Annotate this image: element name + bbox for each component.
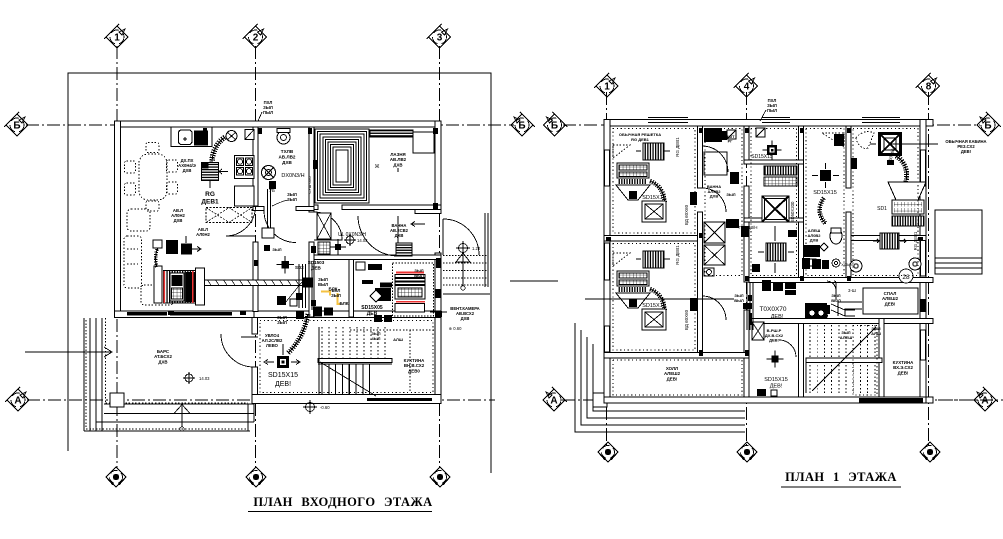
- svg-text:ДЕВ!: ДЕВ!: [961, 149, 971, 154]
- partition shower bottom: [744, 218, 804, 222]
- axis marker 1 top right plan: [594, 73, 618, 97]
- svg-text:ДЕВ!: ДЕВ!: [770, 383, 783, 389]
- svg-text:А: А: [14, 396, 21, 407]
- exterior wall top (left plan): [115, 121, 442, 127]
- stair handrail: [318, 359, 392, 363]
- balcony right: [935, 210, 982, 274]
- label sauna: [390, 152, 407, 167]
- labels left stair hall: [262, 333, 283, 348]
- duct hatch marks: [208, 281, 299, 286]
- svg-text:ДХВ: ДХВ: [174, 218, 183, 223]
- terrace column at axis: [110, 393, 124, 407]
- partition col3 right: [799, 126, 804, 282]
- axis marker 2 top: [243, 24, 267, 48]
- labels corridor: [765, 328, 784, 343]
- vent unit bedroom SW: [616, 251, 670, 330]
- svg-text:3-Ш: 3-Ш: [848, 288, 856, 293]
- axis line 3 vertical: [439, 46, 441, 468]
- svg-text:4ЫЛ: 4ЫЛ: [372, 336, 381, 341]
- label terrace room: [154, 349, 172, 364]
- (28) circle: [899, 269, 913, 283]
- svg-text:ДХВ: ДХВ: [810, 238, 819, 243]
- partition axis4 mid: [744, 186, 749, 282]
- RG unit kitchen: [202, 163, 219, 181]
- bath mat: [396, 243, 412, 256]
- partition stair left: [799, 320, 804, 397]
- axis marker 1 bottom right plan: [598, 442, 618, 462]
- svg-text:АЛШ: АЛШ: [871, 331, 881, 336]
- svg-text:SD15X15: SD15X15: [751, 154, 773, 160]
- svg-text:АВ.ЛВ2: АВ.ЛВ2: [278, 154, 295, 159]
- svg-text:ДЕВ!: ДЕВ!: [667, 376, 678, 381]
- axis marker 1 bottom: [106, 467, 126, 487]
- svg-text:ВЫТ: ВЫТ: [726, 135, 735, 139]
- stair hall door arc to terrace: [221, 334, 254, 367]
- dotted wedge right col: [822, 133, 844, 147]
- label SD15X15 stair hall: [268, 372, 298, 379]
- svg-text:SD15X15: SD15X15: [813, 190, 837, 196]
- svg-text:ПЛАН 1 ЭТАЖА: ПЛАН 1 ЭТАЖА: [785, 470, 897, 484]
- svg-text:ДЕВ!: ДЕВ!: [769, 338, 779, 343]
- window band bottom wall: [127, 312, 232, 315]
- corridor diffuser: [767, 351, 784, 368]
- svg-text:SD1503: SD1503: [308, 260, 325, 265]
- svg-text:4: 4: [744, 82, 750, 93]
- grille NE room: [873, 233, 906, 249]
- partition hall/sauna lower: [309, 242, 314, 317]
- WC toilet: [277, 131, 290, 144]
- axis line 1 vertical right plan: [606, 92, 608, 445]
- svg-text:А: А: [981, 396, 988, 407]
- window sills top wall: [648, 117, 688, 119]
- wall junction specks right plan: [699, 128, 703, 133]
- door arcs bedrooms left: [703, 188, 727, 212]
- armchair: [127, 209, 150, 231]
- svg-text:ДХВ: ДХВ: [395, 233, 404, 238]
- svg-text:SD15X15: SD15X15: [642, 195, 666, 201]
- label bath: [390, 223, 409, 238]
- svg-text:ДЕВ!: ДЕВ!: [898, 370, 909, 375]
- wall corner SE: [926, 397, 933, 403]
- s-duct NE room: [896, 156, 907, 182]
- partition hall top: [604, 353, 749, 359]
- axis marker Б left: [4, 112, 28, 136]
- svg-text:1: 1: [114, 33, 120, 44]
- big X diffuser mid: [762, 196, 789, 222]
- svg-text:-0.60: -0.60: [320, 405, 330, 410]
- black unit with circles: [805, 303, 827, 319]
- labels right col: [807, 228, 821, 243]
- partition bath bottom: [314, 255, 441, 260]
- tech room AHU hatched: [396, 272, 424, 274]
- svg-text:14.03: 14.03: [357, 238, 368, 243]
- svg-text:БЛК: БЛК: [339, 301, 348, 306]
- svg-text:Б: Б: [13, 121, 20, 132]
- axis line 8 vertical right plan: [928, 92, 930, 445]
- stair upper flight dotted: [322, 327, 385, 360]
- svg-text:ТХЛВ: ТХЛВ: [281, 149, 294, 154]
- riser black boxes axis4: [741, 226, 749, 237]
- axis marker 2 bottom: [246, 467, 266, 487]
- kitchen lower counter: [235, 186, 255, 206]
- dense black cluster above: [802, 258, 810, 269]
- stove: [235, 156, 255, 179]
- dining table: [139, 154, 167, 200]
- axis marker А left: [5, 387, 29, 411]
- dotted room insets: [613, 129, 695, 234]
- partition hall/sauna upper: [309, 127, 314, 212]
- svg-text:ЗЫЛ: ЗЫЛ: [272, 247, 281, 252]
- axis marker 4 top right plan: [734, 73, 758, 97]
- horizontal supply duct: [205, 280, 306, 286]
- exterior wall bottom (right plan): [604, 397, 933, 403]
- hall closet X: [206, 208, 252, 223]
- svg-text:ДХВ: ДХВ: [183, 168, 192, 173]
- labels hall lower: [277, 315, 287, 325]
- label SD corridor: [764, 377, 788, 389]
- label kuhtina: [404, 358, 425, 373]
- porch edge: [485, 213, 488, 287]
- label kuhtina right plan: [893, 360, 914, 375]
- svg-text:SD1: SD1: [877, 206, 887, 212]
- terrace section arrow: [174, 405, 190, 414]
- leader + label obychnaya kabina: [890, 143, 938, 145]
- stairs right plan dotted treads: [810, 325, 875, 393]
- fan-coil cluster living room: [154, 266, 162, 303]
- partition shower top: [744, 160, 804, 164]
- partition tech room left: [349, 260, 354, 318]
- svg-text:ВД 60X60: ВД 60X60: [684, 204, 689, 225]
- axis line 1 vertical: [116, 46, 118, 468]
- axis marker 3 top: [427, 24, 451, 48]
- axis marker Б left (right plan): [544, 112, 568, 136]
- stair cut diagonal right plan: [812, 327, 876, 391]
- svg-text:ДЕВ!: ДЕВ!: [275, 381, 291, 388]
- site boundary left plan: [68, 73, 491, 473]
- hall duct bottom cluster: [313, 307, 322, 317]
- exterior wall left (right plan): [604, 120, 610, 404]
- big black X diffuser NE: [878, 132, 902, 156]
- corridor riser pipes: [747, 282, 753, 330]
- svg-text:ПЫЛ: ПЫЛ: [263, 110, 273, 115]
- bathroom trays col2: [704, 152, 727, 175]
- duct elbow: [838, 302, 862, 316]
- axis line Б right plan: [601, 124, 980, 126]
- exterior wall right upper (left plan): [435, 121, 441, 213]
- stair hall bottom wall: [252, 395, 441, 404]
- dotted wedge far right room: [856, 132, 874, 149]
- svg-text:Т0Х0Х70: Т0Х0Х70: [759, 306, 786, 313]
- svg-text:ДЕВ1: ДЕВ1: [201, 198, 219, 205]
- riser labels above right plan: [767, 98, 777, 113]
- stair walk line: [409, 330, 411, 392]
- svg-text:1.20: 1.20: [472, 246, 481, 251]
- terrace leader arrow: [25, 347, 112, 357]
- labels left of tech: [331, 288, 341, 298]
- hall small boxes: [277, 296, 286, 305]
- hall vertical duct band: [299, 264, 312, 310]
- svg-text:ДХВ: ДХВ: [710, 194, 719, 199]
- axis marker 4 bottom right plan: [737, 442, 757, 462]
- label SD tech: [361, 305, 383, 317]
- svg-text:ВЫЛ: ВЫЛ: [318, 282, 328, 287]
- kitchen black appliance: [194, 131, 208, 146]
- svg-text:ЗЫЛ: ЗЫЛ: [331, 293, 341, 298]
- svg-text:ДЕВ0: ДЕВ0: [408, 368, 420, 373]
- svg-text:Б: Б: [518, 121, 525, 132]
- partition WC bottom west stub: [253, 207, 264, 211]
- terrace steps bottom: [84, 414, 254, 432]
- svg-text:А: А: [550, 396, 557, 407]
- exterior wall bottom-mid segment: [254, 311, 441, 318]
- svg-text:1: 1: [604, 82, 610, 93]
- svg-text:АЛШ: АЛШ: [393, 337, 403, 342]
- axis marker А right (right plan): [974, 387, 998, 411]
- axis marker Б right (left plan): [511, 112, 535, 136]
- svg-text:Б: Б: [984, 121, 991, 132]
- svg-text:Б: Б: [551, 121, 558, 132]
- label hall room: [664, 366, 681, 381]
- partition living/hall lower: [253, 242, 258, 312]
- porch door arc: [443, 219, 479, 255]
- svg-text:SD15X15: SD15X15: [268, 372, 298, 379]
- partition col4 right upper: [846, 126, 851, 188]
- porch survey mark: [459, 244, 468, 253]
- axis marker 3 bottom: [430, 467, 450, 487]
- svg-text:28: 28: [902, 274, 910, 281]
- svg-text:ДХВ: ДХВ: [158, 359, 167, 364]
- label top left room: [619, 132, 661, 142]
- black box with 3: [181, 244, 192, 255]
- porch steps: [443, 256, 487, 286]
- corridor black squares: [809, 305, 818, 314]
- diffuser right col: [820, 170, 831, 181]
- svg-text:ДЕВ!: ДЕВ!: [771, 314, 784, 320]
- exterior wall left (left plan): [115, 121, 121, 317]
- tech room black wall boxes: [374, 315, 382, 322]
- sofa: [124, 236, 142, 288]
- partition axis4 lower: [744, 310, 749, 397]
- mid column AHU grille: [764, 166, 797, 175]
- stair cut line: [320, 362, 376, 396]
- svg-text:3: 3: [437, 33, 443, 44]
- black diffuser top mid-left: [718, 131, 727, 140]
- partition mid horizontal: [749, 278, 933, 283]
- axis line 2 vertical: [255, 46, 257, 468]
- tech room fan unit black: [375, 288, 391, 301]
- partition stair hall top: [749, 319, 933, 324]
- svg-text:ДХВ: ДХВ: [393, 162, 402, 167]
- svg-text:RG: RG: [205, 191, 215, 198]
- partition stair right: [879, 319, 884, 398]
- axis line Б right plan west stub: [563, 124, 600, 126]
- svg-text:ПЫЛ: ПЫЛ: [767, 108, 777, 113]
- svg-text:⊕ 0.60: ⊕ 0.60: [449, 326, 462, 331]
- funnel NE: [888, 182, 926, 200]
- label RG ДЕВ1 kitchen: [201, 191, 219, 205]
- axis marker А left (right plan): [543, 387, 567, 411]
- exterior wall right lower (left plan): [435, 253, 441, 400]
- axis marker 8 bottom right plan: [920, 442, 940, 462]
- svg-text:ВД 60X60: ВД 60X60: [684, 309, 689, 330]
- riser labels above building: [263, 100, 273, 115]
- svg-text:RG ДЕВ1: RG ДЕВ1: [913, 231, 918, 250]
- svg-text:SD2: SD2: [295, 265, 304, 270]
- hall diffuser: [276, 256, 294, 274]
- exterior wall bottom-left segment: [115, 311, 255, 318]
- corridor black equipment row: [762, 280, 771, 291]
- stair labels small: [831, 293, 841, 303]
- label block WC: [278, 149, 295, 165]
- sauna heater: [370, 130, 413, 137]
- label block kitchen: [178, 158, 196, 173]
- svg-text:SD15X15: SD15X15: [642, 303, 666, 309]
- terrace steps left side: [84, 318, 102, 431]
- svg-text:2: 2: [253, 33, 259, 44]
- AHU NE: [892, 200, 924, 214]
- window band bottom right plan: [859, 398, 923, 403]
- s-duct right col: [820, 198, 826, 224]
- svg-text:ДЕВ!: ДЕВ!: [885, 301, 896, 306]
- wall corner NE: [926, 120, 933, 127]
- windows left wall: [605, 150, 610, 186]
- kitchen counter top: [171, 127, 212, 147]
- diffuser mid top: [763, 141, 782, 160]
- mid striped grille low: [766, 243, 786, 261]
- svg-text:ВЫЛ: ВЫЛ: [734, 298, 744, 303]
- bath big door arc: [358, 216, 398, 256]
- partition right mid: [851, 236, 926, 241]
- partition bedrooms left: [604, 236, 698, 242]
- porch arrow: [456, 253, 470, 262]
- svg-text:ЗЫЛ: ЗЫЛ: [726, 192, 735, 197]
- exhaust fan symbol: [262, 166, 276, 180]
- label kabina right margin: [945, 139, 986, 154]
- kitchen sink: [179, 130, 193, 145]
- label spal room: [882, 291, 899, 306]
- svg-text:14.03: 14.03: [199, 376, 210, 381]
- axis marker Б right (right plan): [977, 112, 1001, 136]
- label SD1503: [308, 260, 325, 270]
- labels col2: [707, 184, 721, 199]
- svg-text:УБ: УБ: [269, 188, 275, 193]
- window band stair hall bottom: [367, 398, 432, 401]
- dotted wedge NW: [613, 145, 630, 158]
- small labels hall: [287, 192, 297, 202]
- duct elbow right: [827, 281, 836, 300]
- axis marker 1 top: [104, 24, 128, 48]
- partition sauna bottom stub: [314, 205, 318, 210]
- svg-text:ЗЫЛ: ЗЫЛ: [287, 197, 297, 202]
- axis line Б horizontal: [26, 124, 514, 126]
- partition WC bottom east stub: [296, 207, 314, 211]
- svg-text:ДХВ: ДХВ: [461, 316, 470, 321]
- partition sauna bottom: [342, 205, 441, 210]
- terrace steps right plan: [575, 323, 745, 432]
- label vent kamera: [450, 306, 479, 321]
- svg-text:RG ДЕВ1: RG ДЕВ1: [675, 137, 680, 157]
- kitchen fan: [226, 131, 237, 142]
- dotted inset stair hall left plan: [260, 321, 433, 393]
- axis line А horizontal: [27, 399, 495, 401]
- svg-text:ДХВ: ДХВ: [282, 160, 292, 165]
- svg-text:АЛ0Н2: АЛ0Н2: [196, 232, 210, 237]
- stair black square diffuser: [277, 356, 289, 368]
- svg-text:RG ДЕВ1: RG ДЕВ1: [675, 245, 680, 265]
- WC door arc: [264, 211, 296, 243]
- svg-text:DX0N3/Н: DX0N3/Н: [281, 173, 304, 179]
- sauna corner box: [413, 132, 434, 153]
- partition kitchen/hall: [253, 127, 258, 206]
- axis line А right plan: [562, 399, 978, 401]
- partition col4 right lower: [846, 212, 851, 282]
- hall door arc (kitchen): [226, 206, 256, 236]
- leader line right: [443, 293, 490, 295]
- terrace floor edge: [104, 404, 254, 431]
- terrace dotted boundary: [106, 318, 249, 403]
- exterior wall right (right plan): [920, 120, 926, 404]
- svg-text:АЛЕШ: АЛЕШ: [840, 335, 852, 340]
- svg-text:ВЫЛ: ВЫЛ: [414, 273, 424, 278]
- hall misc boxes: [262, 228, 274, 238]
- svg-text:ДЕВ: ДЕВ: [311, 265, 321, 270]
- svg-text:Х05А4: Х05А4: [841, 263, 852, 267]
- svg-text:ПЛАН ВХОДНОГО ЭТАЖА: ПЛАН ВХОДНОГО ЭТАЖА: [253, 495, 432, 509]
- room label box СПАЛ: [863, 288, 918, 314]
- partition col1 right lower: [698, 212, 703, 358]
- svg-text:СУШ 0X0: СУШ 0X0: [307, 176, 312, 194]
- svg-text:SD15X15: SD15X15: [764, 377, 788, 383]
- svg-text:8: 8: [926, 82, 932, 93]
- duct curve to column: [156, 247, 158, 267]
- corridor duct riser boxes: [752, 322, 764, 340]
- wall junction specks: [258, 128, 262, 134]
- vent unit bedroom NW: [616, 143, 670, 222]
- axis marker 8 top right plan: [916, 73, 940, 97]
- svg-text:2: 2: [777, 286, 780, 292]
- partition right ledge: [415, 210, 441, 214]
- black bits bottom wall right plan: [757, 389, 766, 396]
- stair lower flight: [322, 364, 370, 394]
- mid column lower black cluster: [752, 264, 760, 272]
- kitchen flexible duct: [212, 137, 226, 164]
- svg-text:ЗЫЛ: ЗЫЛ: [277, 320, 287, 325]
- partition axis4 upper: [744, 126, 749, 160]
- circled symbols NE: [850, 260, 862, 272]
- sauna benches nested: [315, 129, 369, 203]
- windows right wall: [921, 150, 926, 186]
- kitchen corner box: [245, 130, 254, 140]
- yellow highlight: [338, 293, 341, 304]
- svg-text:Ж: Ж: [375, 164, 380, 170]
- label closet: [196, 227, 210, 237]
- bath door arc: [314, 212, 342, 240]
- stairs handrail right plan: [806, 358, 882, 363]
- svg-text:ЛЕВО: ЛЕВО: [266, 343, 279, 348]
- svg-text:RG ДЕВ1: RG ДЕВ1: [631, 137, 650, 142]
- stair hall left wall lower: [252, 367, 258, 404]
- axis line 4 vertical right plan: [746, 92, 748, 445]
- partition col1 right upper: [698, 126, 703, 188]
- exterior wall top (right plan): [604, 120, 933, 127]
- label block kitchen 2: [171, 208, 185, 223]
- stair hall left wall upper: [252, 318, 258, 335]
- svg-text:SD50X200: SD50X200: [790, 201, 795, 222]
